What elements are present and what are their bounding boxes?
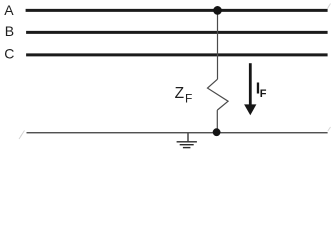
wire phase B bus xyxy=(26,31,328,34)
wire zigzag to neutral xyxy=(216,110,218,132)
ground stub xyxy=(187,133,189,141)
svg-text:B: B xyxy=(5,23,14,39)
svg-text:C: C xyxy=(4,46,14,62)
ground symbol bar 2 xyxy=(180,144,194,146)
impedance ZF zigzag xyxy=(208,79,229,110)
break marks right end of neutral xyxy=(328,127,331,131)
wire fault tap from phase A xyxy=(217,11,219,80)
fault current arrow IF xyxy=(249,63,252,105)
ground symbol bar 1 xyxy=(177,141,197,143)
break marks left end of neutral xyxy=(19,131,25,140)
svg-text:A: A xyxy=(4,2,14,18)
wire neutral/ground bus xyxy=(27,132,328,134)
wire phase A bus xyxy=(26,9,328,12)
break marks right end of phase A xyxy=(328,4,331,9)
ground symbol bar 3 xyxy=(183,147,191,149)
wire phase C bus xyxy=(26,53,328,56)
svg-text:F: F xyxy=(185,92,192,106)
junction node on neutral xyxy=(213,128,221,136)
junction node on phase A xyxy=(213,6,222,15)
svg-text:Z: Z xyxy=(175,85,184,102)
svg-text:F: F xyxy=(260,88,267,100)
